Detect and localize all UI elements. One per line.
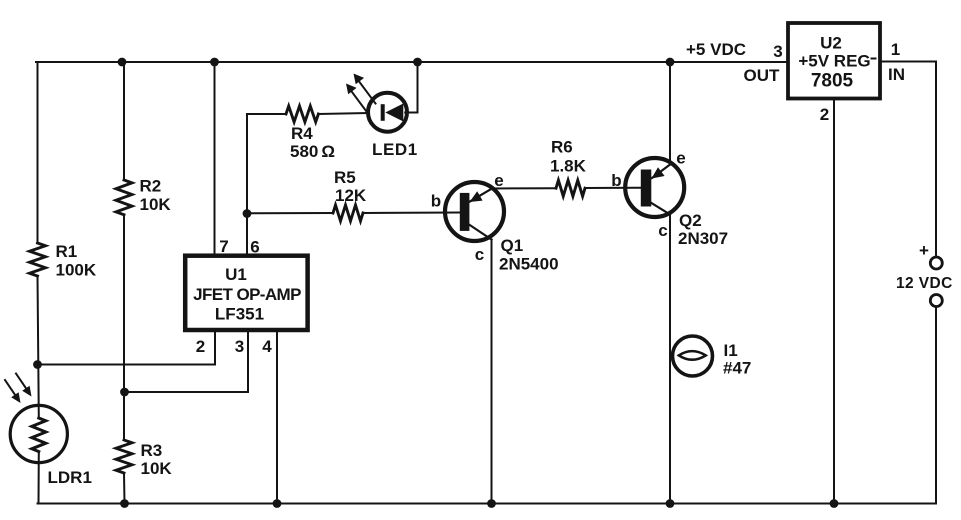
junction dot +5VDC node [666, 58, 675, 67]
wire U2 pin 2 to bottom rail [833, 99, 835, 504]
transistor Q2 emitter line [652, 165, 670, 179]
svg-text:580Ω: 580Ω [290, 142, 335, 161]
svg-text:c: c [475, 245, 484, 264]
wire R2/R3 vertical [123, 62, 125, 180]
svg-text:R1: R1 [56, 242, 78, 261]
svg-text:12 VDC: 12 VDC [896, 275, 953, 292]
stray dash after REG [871, 58, 877, 60]
junction dot R5/pin6 node [243, 209, 252, 218]
svg-text:+: + [919, 241, 929, 260]
terminal - of 12VDC [930, 295, 942, 307]
svg-text:R3: R3 [141, 441, 163, 460]
svg-text:7: 7 [219, 237, 228, 256]
lamp I1 [673, 336, 713, 376]
wire U1 pin 4 [276, 330, 278, 504]
LED1 cathode bar [381, 104, 385, 121]
svg-text:U1: U1 [225, 265, 247, 284]
resistor R6 [556, 180, 585, 196]
transistor Q1 collector line [469, 225, 492, 240]
resistor R4 [286, 106, 318, 122]
terminal + of 12VDC [930, 257, 942, 269]
svg-text:7805: 7805 [811, 71, 854, 92]
regulator U2 box [788, 23, 880, 99]
svg-text:Q2: Q2 [679, 211, 702, 230]
junction dot pin2 wire on R1 branch [33, 360, 42, 369]
svg-text:OUT: OUT [744, 66, 781, 85]
wire top rail [36, 61, 788, 63]
resistor R1 [30, 243, 46, 276]
wire LDR to bottom rail [38, 452, 40, 504]
svg-text:I1: I1 [724, 341, 738, 360]
svg-text:3: 3 [773, 42, 782, 61]
svg-text:IN: IN [888, 65, 905, 84]
LED light arrow 1 [358, 80, 376, 104]
wire R1 to LDR [38, 276, 39, 418]
wire R6 to Q2 base [585, 187, 641, 189]
wire Q1 emitter to R6 [492, 187, 556, 189]
svg-text:R5: R5 [334, 168, 356, 187]
LED LED1 [368, 93, 407, 132]
wire U2 pin1 to +12V terminal [880, 62, 936, 258]
junction dot bottom rail U2 pin2 [830, 499, 839, 508]
svg-text:e: e [494, 171, 503, 190]
transistor Q2 emitter arrowhead [652, 167, 665, 178]
wire R3 to bottom rail [123, 473, 126, 504]
photoresistor LDR1 [10, 405, 67, 462]
svg-text:12K: 12K [335, 186, 367, 205]
LED arrowhead 1 [354, 74, 365, 85]
svg-text:1: 1 [891, 40, 900, 59]
svg-text:R6: R6 [551, 138, 573, 157]
svg-text:3: 3 [235, 337, 244, 356]
svg-text:b: b [431, 192, 441, 211]
transistor Q1 emitter arrowhead [470, 191, 483, 202]
svg-text:10K: 10K [141, 459, 173, 478]
svg-text:b: b [611, 171, 621, 190]
junction dot bottom rail pin4 [273, 499, 282, 508]
LED arrowhead 2 [346, 84, 357, 95]
wire R4 left segment [247, 113, 286, 115]
junction dot top rail R2 [118, 58, 127, 67]
svg-text:Q1: Q1 [501, 236, 524, 255]
wire LED1 to top rail [405, 62, 417, 113]
junction dot pin3 wire on R3 branch [120, 388, 129, 397]
svg-text:R4: R4 [291, 124, 313, 143]
wire U1 pin 2 [38, 330, 216, 365]
svg-text:100K: 100K [56, 261, 97, 280]
svg-text:U2: U2 [820, 34, 842, 53]
svg-text:10K: 10K [140, 195, 172, 214]
transistor Q1 emitter line [470, 189, 492, 202]
svg-text:1.8K: 1.8K [550, 157, 587, 176]
junction dot bottom rail R3 [120, 499, 129, 508]
transistor Q1 circle [445, 182, 504, 241]
wire R4 left branch down to U1 pin 6 [246, 114, 248, 256]
wire bottom rail [38, 503, 937, 505]
LDR arrowhead 1 [11, 392, 20, 403]
svg-text:2: 2 [820, 105, 829, 124]
transistor Q2 circle [625, 158, 684, 217]
svg-text:JFET OP-AMP: JFET OP-AMP [193, 285, 301, 304]
svg-text:LED1: LED1 [372, 140, 418, 159]
junction dot bottom rail lamp [666, 499, 675, 508]
svg-text:#47: #47 [723, 359, 751, 378]
LDR light arrow 2 [16, 374, 27, 390]
wire U1 pin 3 [125, 330, 249, 392]
wire Q2 collector down through lamp to bottom rail [669, 215, 671, 504]
LED1 anode triangle [385, 104, 403, 122]
wire Q2 emitter up to +5VDC node [669, 62, 671, 165]
transistor Q2 base bar [641, 170, 652, 207]
svg-text:+5 VDC: +5 VDC [686, 40, 746, 59]
resistor R2 [116, 180, 132, 215]
LDR arrowhead 2 [22, 386, 31, 397]
junction dot top rail LED [413, 58, 422, 67]
op-amp U1 box [185, 256, 307, 330]
junction dot bottom rail Q1 collector [487, 499, 496, 508]
wire Q1 collector to bottom rail [491, 240, 493, 504]
wire 12VDC negative terminal down to bottom rail [935, 307, 937, 504]
wire R2 to R3 [123, 215, 125, 440]
svg-text:2N307: 2N307 [678, 229, 728, 248]
svg-text:LF351: LF351 [215, 305, 264, 324]
svg-text:LDR1: LDR1 [48, 468, 92, 487]
LDR light arrow 1 [5, 380, 16, 396]
junction dot top rail pin7 [210, 58, 219, 67]
wire R4 to LED1 [319, 113, 369, 114]
svg-text:2: 2 [196, 337, 205, 356]
svg-text:c: c [658, 221, 667, 240]
svg-text:4: 4 [262, 337, 272, 356]
transistor Q2 collector line [652, 203, 671, 215]
resistor R5 [333, 205, 363, 221]
wire U1 pin 7 from top rail [214, 62, 216, 256]
resistor R3 [116, 440, 132, 473]
svg-text:2N5400: 2N5400 [499, 255, 559, 274]
LED light arrow 2 [351, 90, 369, 114]
wire R5 to Q1 base [363, 212, 460, 215]
svg-text:e: e [676, 149, 685, 168]
svg-text:6: 6 [250, 238, 259, 257]
wire left branch R1/LDR vertical upper [36, 62, 38, 243]
svg-text:R2: R2 [140, 177, 162, 196]
wire R5 left segment from node to resistor [247, 212, 333, 214]
transistor Q1 base bar [460, 193, 470, 231]
svg-text:+5V REG: +5V REG [798, 52, 870, 71]
